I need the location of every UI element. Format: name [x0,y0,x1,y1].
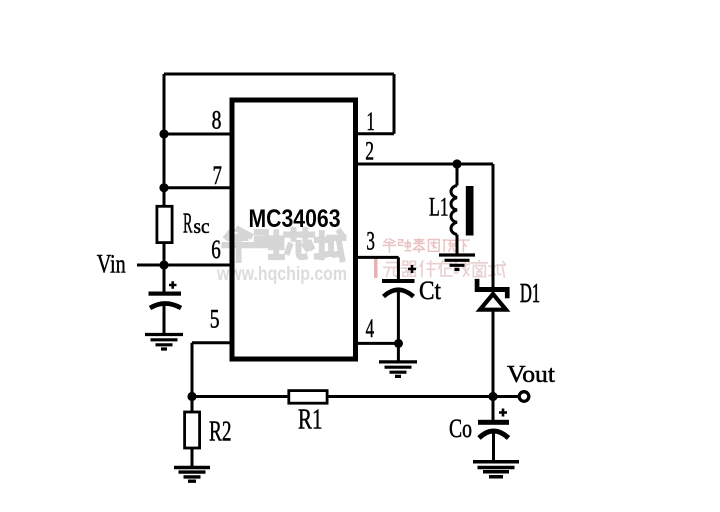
svg-text:R1: R1 [298,405,323,436]
svg-text:6: 6 [211,235,221,264]
svg-text:sc: sc [194,216,210,238]
svg-text:8: 8 [212,106,222,135]
svg-text:R: R [183,208,193,240]
svg-text:L1: L1 [429,193,449,222]
svg-text:4: 4 [366,314,375,343]
svg-text:3: 3 [366,227,375,256]
svg-text:Vin: Vin [97,250,126,279]
svg-text:D1: D1 [520,278,540,308]
svg-text:Co: Co [449,414,472,443]
svg-text:R2: R2 [209,417,232,448]
svg-text:5: 5 [210,305,220,334]
svg-text:www.hqchip.com: www.hqchip.com [216,263,347,285]
svg-text:1: 1 [366,107,375,136]
svg-text:2: 2 [365,137,374,166]
svg-text:Ct: Ct [419,276,442,305]
svg-text:Vout: Vout [507,362,555,388]
svg-text:7: 7 [213,161,222,190]
